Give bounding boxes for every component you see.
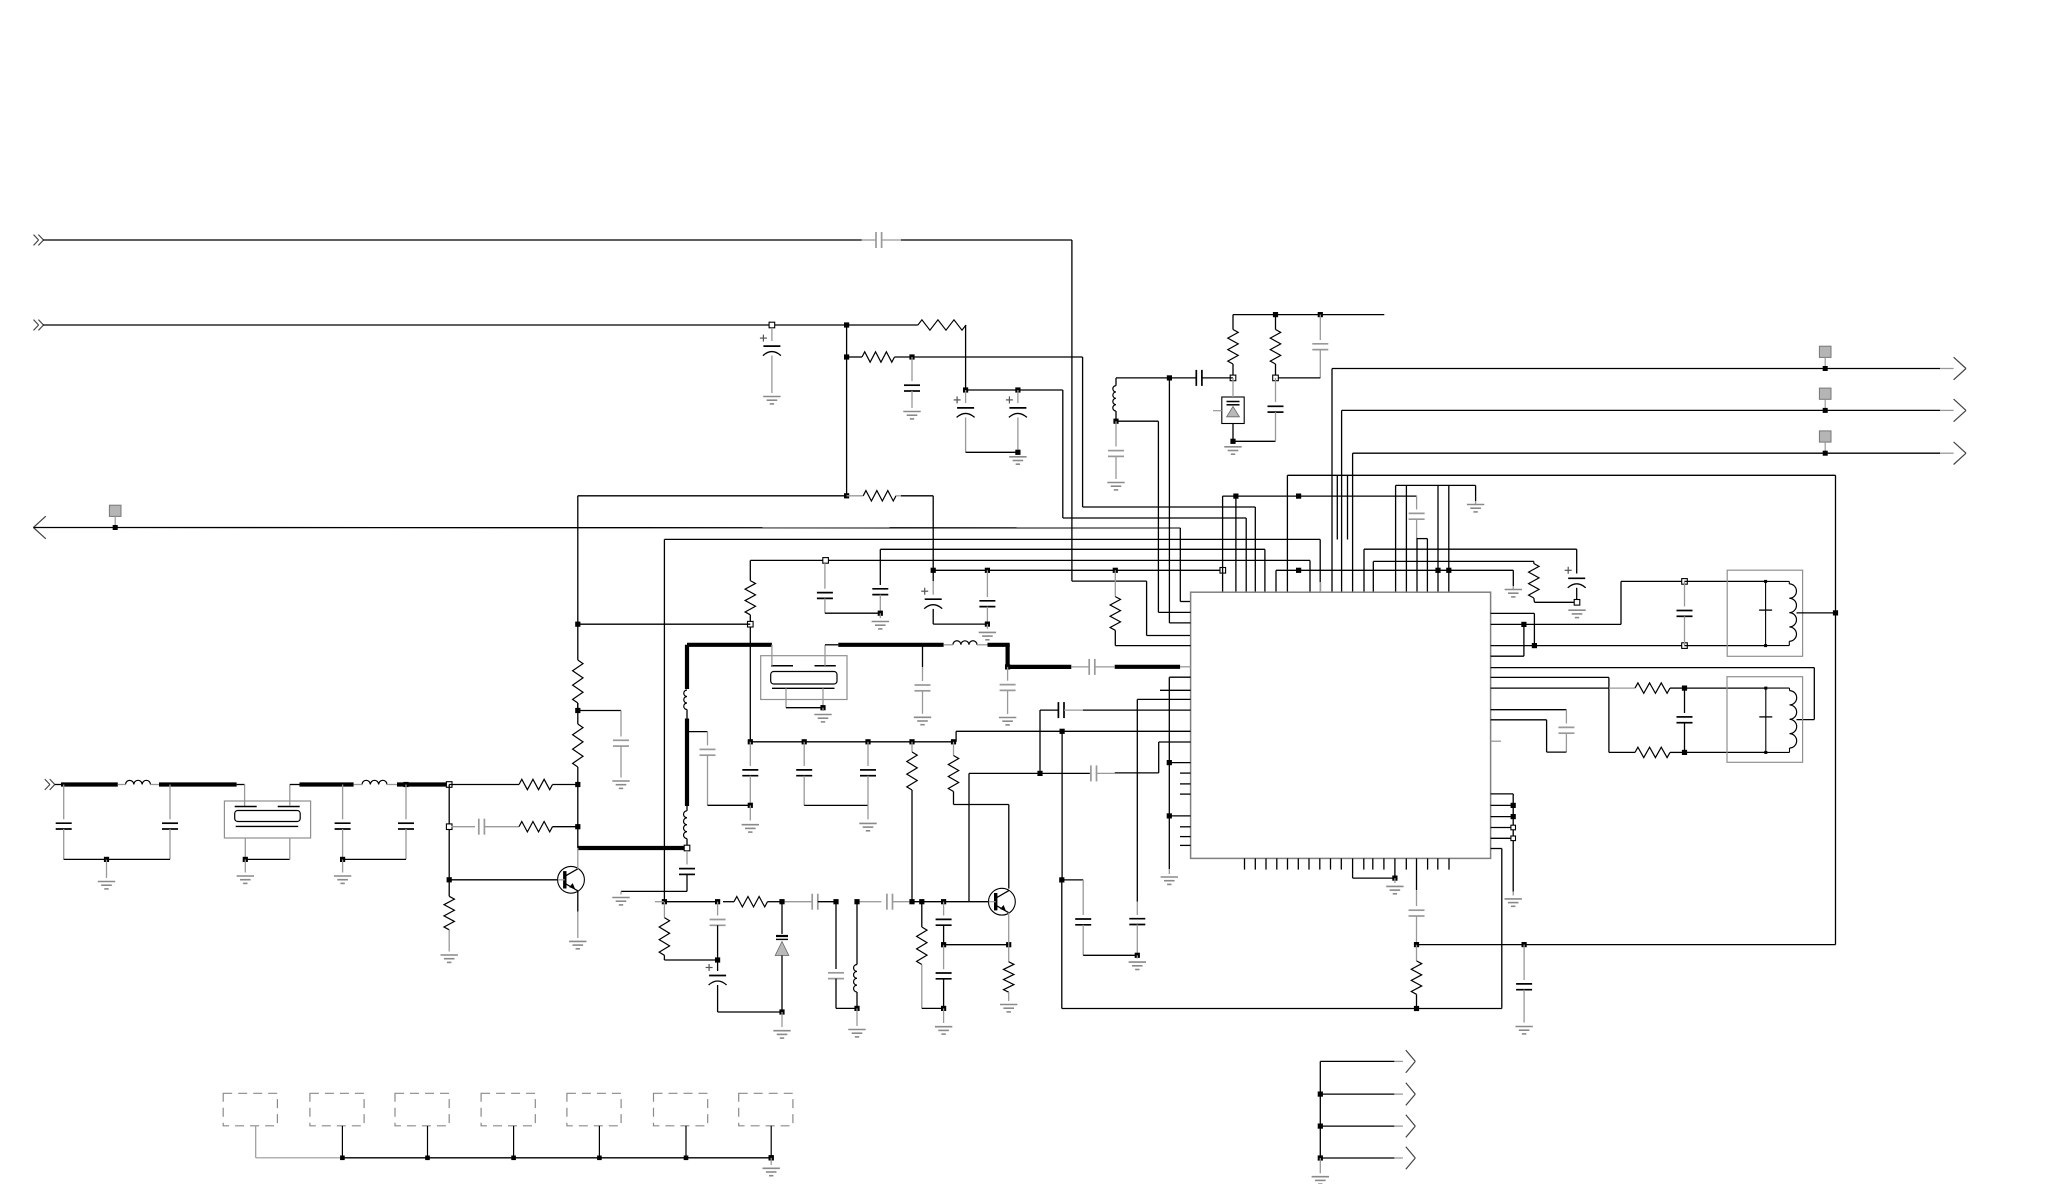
inductor L2a bbox=[684, 690, 687, 710]
resistor R7c T2 top bbox=[1635, 683, 1670, 693]
wire row R5 bbox=[880, 549, 1265, 592]
wire row R4 bbox=[664, 539, 1320, 592]
pad P1 bbox=[1819, 346, 1831, 371]
wire R17 to 578 bbox=[553, 824, 581, 829]
wire to coil bbox=[1116, 378, 1169, 386]
wire R8b to T2 bbox=[1670, 750, 1766, 755]
vertical out1 to IC pin bbox=[1331, 369, 1333, 593]
thick bar 687 bbox=[686, 710, 688, 807]
wire row357 bbox=[844, 354, 862, 359]
resistor R3 row357 bbox=[862, 352, 895, 362]
dashed modules row bbox=[223, 1093, 793, 1126]
junction 944 bbox=[941, 942, 946, 947]
wire R7b to ground bbox=[1512, 570, 1514, 589]
junction 1008 bbox=[941, 1006, 946, 1023]
junction rail 944 bbox=[1414, 942, 1419, 947]
pad P2 bbox=[1819, 388, 1831, 413]
wire RF thick 3 bbox=[300, 782, 354, 786]
thick rail 848 bbox=[578, 846, 684, 850]
wire output line 3 bbox=[1353, 452, 1954, 454]
ceramic resonator X1 bbox=[761, 656, 847, 700]
ground G25 bbox=[98, 882, 115, 889]
vertical pin 1449 bbox=[1448, 485, 1450, 592]
ground G28 bbox=[569, 941, 586, 948]
ground G18 bbox=[742, 825, 759, 832]
RF input connector J3 bbox=[45, 779, 55, 790]
node row 377.9 bbox=[1230, 375, 1278, 381]
IC left row 645 via resistor bbox=[1110, 568, 1191, 646]
vertical 1169 upper to IC bbox=[1168, 378, 1170, 623]
IC left row 623 bbox=[1169, 622, 1190, 624]
ground G33 bbox=[763, 1168, 780, 1175]
IC right row 613 U-link bbox=[1491, 613, 1537, 648]
verticals 1337/1347 bbox=[1337, 475, 1347, 539]
resistor R14 at 921.8 bbox=[917, 902, 944, 1009]
capacitor C20 at 1007.6 bbox=[1000, 667, 1016, 714]
wire Q2 emitter row bbox=[944, 942, 1012, 947]
arrow line3 left bbox=[33, 516, 45, 539]
capacitor C11 electrolytic bbox=[1565, 549, 1586, 599]
vertical 1062 osc-agc bbox=[1061, 731, 1063, 880]
resistor R18 at 449 bbox=[444, 896, 454, 951]
resistor R9 at 750 upper bbox=[745, 560, 755, 621]
bus ground stem bbox=[1319, 1158, 1321, 1173]
IC right row 677 to T2 bottom bbox=[1491, 677, 1635, 752]
junction 1169 bbox=[1167, 375, 1172, 380]
junction 718 bbox=[715, 899, 720, 904]
wire diode row bbox=[779, 899, 859, 904]
wire 578-621 cap bbox=[578, 711, 621, 737]
wire 449 vertical bbox=[448, 785, 450, 897]
bottom arrow bus bbox=[1318, 1061, 1403, 1160]
node 449 bbox=[446, 782, 452, 788]
wire big loop vertical bbox=[1835, 475, 1837, 944]
junction 718-960 bbox=[715, 957, 720, 962]
arrow bottom 4 bbox=[1406, 1147, 1416, 1170]
capacitor C35 shunt bbox=[335, 785, 351, 873]
ground G26 bbox=[237, 876, 254, 883]
wire row R6 bbox=[750, 560, 1310, 592]
IC left row 731 bbox=[956, 729, 1191, 734]
wire R5 cap chain bbox=[872, 549, 888, 618]
pad P3 bbox=[1819, 431, 1831, 456]
capacitor C40 at 987 bbox=[979, 568, 995, 629]
ground G16 bbox=[914, 717, 931, 724]
resistor R20 at 1416.5 bbox=[1411, 945, 1421, 1009]
resistor R15 at 1008.7 bbox=[1004, 945, 1014, 1001]
wire line1 left bbox=[43, 239, 876, 241]
electrolytic C39 AGC bbox=[921, 570, 987, 624]
capacitor C31 at 1083 bbox=[1075, 880, 1137, 955]
wire row 475 bbox=[1287, 475, 1835, 592]
arrow bottom 1 bbox=[1406, 1050, 1416, 1073]
wire Q2 collector bbox=[1008, 805, 1010, 889]
wire row R2 bbox=[1063, 390, 1246, 592]
wire RF thick 1 bbox=[61, 782, 118, 786]
ground G21 bbox=[848, 1030, 865, 1037]
wire row 496 bbox=[1223, 494, 1417, 593]
vertical out3 to IC pin bbox=[1352, 453, 1354, 592]
vertical pin 1438 bbox=[1437, 485, 1439, 592]
wire C2-C3 bottom bbox=[966, 450, 1021, 455]
capacitor C1 electrolytic at 772 bbox=[760, 322, 781, 393]
IC right rows 709/720 cap link bbox=[1491, 710, 1575, 752]
capacitor C26 at 718 bbox=[710, 902, 726, 960]
capacitor C22 at 804 bbox=[796, 742, 868, 806]
IC right row 848 down-left rail bbox=[1062, 849, 1502, 1009]
capacitor C21 at 750 bbox=[742, 742, 758, 821]
IC bottom pin gnd 1394.9 bbox=[1392, 858, 1397, 883]
wire C9 to pin bbox=[1417, 539, 1428, 593]
wire C15 to ground bbox=[621, 891, 687, 894]
inductor L4 at 857 bbox=[854, 902, 860, 1026]
wire row 549R bbox=[1364, 549, 1577, 592]
capacitor C9 at 1416.6 bbox=[1409, 496, 1425, 538]
ground G27 bbox=[334, 876, 351, 883]
pad P0 line3 bbox=[109, 505, 121, 530]
X1 pins bottom bbox=[786, 688, 826, 711]
capacitor C12 at T1 bbox=[1677, 581, 1693, 645]
arrow output 3 bbox=[1954, 442, 1966, 465]
thick osc row bbox=[1008, 665, 1090, 669]
wire row R7a bbox=[933, 568, 1225, 574]
ground below C3 bbox=[1009, 457, 1026, 464]
resistor R16 bbox=[519, 779, 553, 789]
capacitor C19 at 922.5 bbox=[915, 645, 931, 714]
capacitor C14 at 1524 bbox=[1516, 945, 1532, 1023]
IF transformer T1 bbox=[1727, 570, 1802, 656]
IC right row 624 bbox=[1491, 622, 1621, 627]
wire row 496 left bbox=[578, 495, 847, 497]
wire 449 to R16 bbox=[449, 784, 519, 786]
wire row357 right bbox=[895, 354, 1083, 359]
wire Q1 collector bbox=[577, 848, 579, 869]
wire into CF1 bbox=[237, 785, 245, 807]
capacitor C25 series bbox=[812, 894, 836, 910]
wire line1 right + vertical bbox=[901, 240, 1072, 581]
capacitor C23 at 868 bbox=[860, 742, 876, 820]
transistor Q1 bbox=[558, 866, 585, 893]
ground G22 bbox=[935, 1027, 952, 1034]
IC right row 667 to T2 tap bbox=[1491, 668, 1815, 720]
wire R16 to 578 bbox=[553, 782, 581, 787]
capacitor C30 at 943.6 lower bbox=[936, 945, 952, 1009]
X1 pins top bbox=[772, 645, 838, 666]
CF1 pin top right bbox=[290, 785, 300, 807]
resistor R12 left bbox=[723, 897, 782, 907]
IF transformer T2 bbox=[1727, 677, 1803, 763]
arrow bottom 2 bbox=[1406, 1083, 1416, 1106]
wire 956 jog bbox=[955, 731, 957, 742]
wire Q1 emitter bbox=[577, 891, 579, 938]
vertical 578 bias chain bbox=[577, 496, 579, 848]
wire node row bbox=[1169, 377, 1233, 379]
IC left row 612 bbox=[1158, 611, 1190, 613]
ground G10 bbox=[1386, 886, 1403, 893]
ground below C1 bbox=[763, 397, 780, 404]
wire 664 to 718 bbox=[655, 899, 718, 904]
capacitor C3 electrolytic bbox=[1006, 387, 1027, 452]
ground G34 bbox=[1312, 1177, 1329, 1184]
wire top rail 314 bbox=[1233, 312, 1384, 317]
wire row 561R bbox=[1373, 561, 1534, 592]
junction gnd 106 bbox=[104, 857, 109, 878]
node 687-848 bbox=[684, 839, 690, 851]
vertical pin 1417 bbox=[1416, 539, 1418, 593]
junction D1 bottom bbox=[1230, 439, 1235, 444]
IC left stubs upper bbox=[1180, 773, 1191, 794]
junction rail 1008 bbox=[1414, 1006, 1419, 1011]
ground below C4 bbox=[903, 412, 920, 419]
capacitor C7 at 1116 bbox=[1108, 421, 1124, 479]
IC right row 656 U-link bbox=[1491, 624, 1524, 656]
IC left row 710 via cap bbox=[1040, 702, 1191, 718]
ground G31 bbox=[979, 632, 996, 639]
transistor Q2 bbox=[989, 888, 1016, 944]
junction 846-496 bbox=[844, 493, 849, 498]
arrow bottom 3 bbox=[1406, 1115, 1416, 1138]
vertical 1137 to caps bbox=[1136, 699, 1138, 915]
resistor R22 at 578 lower bbox=[573, 724, 583, 767]
wire T1 rails into box bbox=[1685, 581, 1766, 645]
resistor R11 at 953.5 bbox=[948, 742, 1009, 805]
ground G13 bbox=[1515, 1027, 1532, 1034]
node 1577 bbox=[1574, 600, 1580, 606]
wire RF thick 2 bbox=[159, 782, 237, 786]
ground G23 bbox=[1000, 1005, 1017, 1012]
vertical 1040 bbox=[1039, 710, 1041, 773]
IC U1 bbox=[1191, 592, 1491, 858]
thick rail 645 right bbox=[838, 643, 943, 647]
IC bottom pin elbow 1352.6 bbox=[1353, 858, 1395, 878]
varicap D1 bbox=[1213, 378, 1244, 441]
resistor R13 at 664 bbox=[659, 902, 717, 960]
vertical pin 1406 bbox=[1405, 485, 1407, 592]
wire row R8 bbox=[1072, 581, 1191, 635]
capacitor C36 shunt bbox=[343, 785, 414, 860]
wire row357 to R1row bbox=[1082, 357, 1084, 507]
IC left thick row 667 (osc) bbox=[1115, 665, 1191, 669]
capacitor C41 at 824.9 bbox=[817, 558, 880, 614]
wire row 485 bbox=[1396, 485, 1476, 592]
ground G8 bbox=[1467, 505, 1484, 512]
wire 624 up to T1 top bbox=[1621, 581, 1685, 624]
resistor R6b at 1533.8 bbox=[1529, 561, 1577, 602]
ground G20 bbox=[773, 1031, 790, 1038]
IC bottom pin 1416.5 cap bbox=[1409, 858, 1425, 944]
diode D2 bbox=[775, 902, 789, 1027]
resistor R5 vertical bbox=[1270, 315, 1280, 378]
junction osc bbox=[1005, 664, 1010, 669]
vertical 1158 to IC bbox=[1157, 421, 1159, 612]
wire output line 1 bbox=[1332, 368, 1954, 370]
IC right stub 741 bbox=[1491, 740, 1501, 742]
wire R2 to row390 bbox=[966, 325, 1063, 390]
wire Q2 base row bbox=[894, 899, 989, 904]
connector J1 (RF input line 1) bbox=[34, 235, 44, 246]
capacitor C34 shunt bbox=[107, 785, 179, 860]
row 773 left bbox=[969, 771, 1090, 902]
junction on line2 bbox=[844, 322, 849, 327]
ground below D1 bbox=[1224, 447, 1241, 454]
node T1 top bbox=[1682, 579, 1688, 585]
connector J2 (line 2) bbox=[34, 320, 44, 331]
vertical 750 chain bbox=[749, 624, 751, 742]
ground G30 bbox=[612, 781, 629, 788]
capacitor C38 at 621 bbox=[613, 740, 629, 777]
capacitor C13 at T2 bbox=[1677, 688, 1693, 752]
ground G19 bbox=[859, 823, 876, 830]
capacitor C37 series bbox=[452, 819, 520, 835]
capacitor C32 at 1137 bbox=[1129, 919, 1145, 959]
IC bottom pin stubs bbox=[1245, 858, 1450, 869]
ground G14 bbox=[612, 898, 629, 905]
rail 742 osc bbox=[748, 739, 956, 744]
ground G12 bbox=[1505, 899, 1522, 906]
wire 1476 to ground bbox=[1475, 485, 1477, 504]
ground G17 bbox=[999, 718, 1016, 725]
wire 1062 dot bbox=[1059, 877, 1083, 1008]
capacitor C18 series on line1 bbox=[876, 232, 901, 248]
wire row 624 left bbox=[575, 622, 750, 627]
resistor R10 at 912 bbox=[907, 742, 917, 902]
capacitor C17 series osc bbox=[1089, 659, 1115, 675]
ground G15 bbox=[814, 715, 831, 722]
capacitor C5 at 1320 bbox=[1276, 315, 1329, 378]
IC right row 645 to T1 bbox=[1491, 645, 1685, 647]
capacitor C6 series bbox=[1196, 370, 1202, 386]
inductor L2b bbox=[684, 806, 687, 839]
thick rail to corner bbox=[988, 645, 1010, 667]
ground G32 bbox=[872, 622, 889, 629]
capacitor C16 bbox=[700, 749, 751, 805]
capacitor C33 shunt bbox=[56, 785, 107, 860]
row 773 series cap bbox=[1090, 765, 1115, 781]
wire junction right bbox=[1116, 420, 1158, 422]
rail taps to IC bbox=[1167, 760, 1191, 819]
node 750-624 bbox=[748, 621, 754, 627]
capacitor C8 bbox=[1268, 378, 1284, 441]
resistor R17 bbox=[519, 822, 553, 832]
inductor L6 bbox=[354, 780, 397, 784]
wire line2 bbox=[43, 324, 918, 326]
resistor R21 at 578 upper bbox=[573, 660, 583, 713]
junction base row bbox=[447, 877, 452, 882]
thick vertical col 687 top bbox=[685, 645, 689, 689]
inductor L5 bbox=[118, 780, 159, 784]
osc tap wire bbox=[687, 732, 708, 746]
resistor R4 vertical bbox=[1228, 315, 1238, 378]
dashed modules bus bbox=[256, 1126, 774, 1165]
capacitor C2 electrolytic bbox=[954, 387, 975, 452]
IC left row 742 L-link bbox=[1115, 742, 1191, 773]
wire D1 to C8 bbox=[1233, 440, 1276, 442]
thick rail 645 left bbox=[687, 643, 772, 647]
arrow output 2 bbox=[1954, 399, 1966, 422]
capacitor C28 at 836 bbox=[828, 902, 857, 1009]
IC left row 677 ground rail bbox=[1169, 677, 1190, 874]
ground G7 bbox=[1505, 590, 1522, 597]
wire base row bbox=[449, 879, 558, 881]
wire R7c to T2 bbox=[1670, 686, 1766, 691]
wire row R1 bbox=[1083, 507, 1256, 592]
junction 406 bbox=[403, 782, 408, 787]
IC left stubs lower bbox=[1180, 827, 1191, 846]
wire RF thin left bbox=[55, 784, 61, 786]
ground G29 bbox=[441, 955, 458, 962]
IC left row 690 stub bbox=[1160, 689, 1191, 691]
resistor R2 on line2 bbox=[918, 320, 966, 330]
vertical out2 to IC pin bbox=[1341, 410, 1343, 592]
arrow output 1 bbox=[1954, 357, 1966, 380]
wire row R3 (line3) bbox=[33, 528, 1190, 602]
wire output line 2 bbox=[1342, 409, 1954, 411]
inductor L3 bbox=[944, 641, 988, 645]
node T1 bottom bbox=[1682, 643, 1688, 649]
CF1 pins bottom bbox=[243, 838, 290, 873]
node 449-827 bbox=[446, 824, 452, 830]
resistor R19 row496 bbox=[847, 491, 934, 501]
wire T1 tap bbox=[1797, 610, 1839, 615]
ground G11 bbox=[1161, 877, 1178, 884]
capacitor C4 at 912 bbox=[904, 357, 920, 408]
wire rail 944 bbox=[1417, 942, 1836, 947]
wire row R7b bbox=[1276, 568, 1513, 593]
vertical 933 to R7a bbox=[931, 496, 936, 573]
wire L1 to junction bbox=[1113, 411, 1118, 424]
ground G24 bbox=[1129, 962, 1146, 969]
ground G9 bbox=[1568, 610, 1585, 617]
wire RF thick 4 bbox=[397, 782, 449, 786]
IC top pin stub bbox=[1320, 582, 1322, 592]
ground below C7 bbox=[1107, 483, 1124, 490]
capacitor C27 electrolytic bbox=[706, 960, 782, 1012]
IC right rows to gnd chain bbox=[1491, 794, 1516, 896]
capacitor C24 series bbox=[857, 894, 894, 910]
vertical from line2 junction bbox=[846, 325, 848, 496]
vertical pin 1236 bbox=[1235, 496, 1237, 592]
IC left row 699 bbox=[1137, 698, 1190, 700]
inductor L1 at 1116 bbox=[1113, 386, 1116, 411]
vertical 664 long bbox=[663, 539, 665, 901]
resistor R8b T2 bottom bbox=[1635, 747, 1670, 757]
IC right row 688 to T2 top bbox=[1491, 687, 1635, 689]
capacitor C15 at 687 bbox=[679, 851, 695, 892]
capacitor C29 at 943.6 upper bbox=[936, 902, 952, 945]
ceramic filter CF1 bbox=[224, 801, 310, 838]
